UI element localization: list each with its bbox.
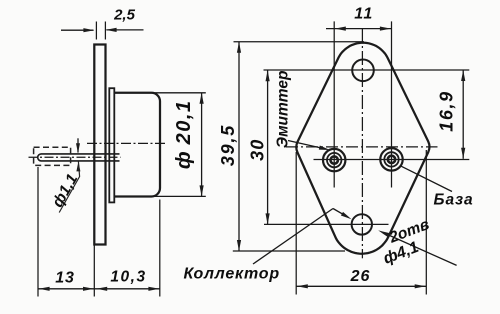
- svg-text:База: База: [434, 191, 474, 208]
- svg-text:ф 20,1: ф 20,1: [173, 99, 195, 169]
- svg-text:Эмиттер: Эмиттер: [275, 71, 292, 149]
- svg-text:10,3: 10,3: [110, 269, 146, 286]
- svg-text:39,5: 39,5: [218, 124, 238, 166]
- svg-text:16,9: 16,9: [437, 90, 457, 131]
- svg-text:30: 30: [248, 139, 268, 161]
- svg-text:13: 13: [55, 270, 74, 287]
- svg-text:2,5: 2,5: [113, 7, 136, 24]
- svg-text:ф4,1: ф4,1: [381, 239, 421, 268]
- svg-text:11: 11: [354, 6, 374, 23]
- svg-text:Коллектор: Коллектор: [183, 266, 279, 283]
- svg-text:ф1,1: ф1,1: [49, 171, 81, 210]
- svg-text:26: 26: [350, 268, 371, 285]
